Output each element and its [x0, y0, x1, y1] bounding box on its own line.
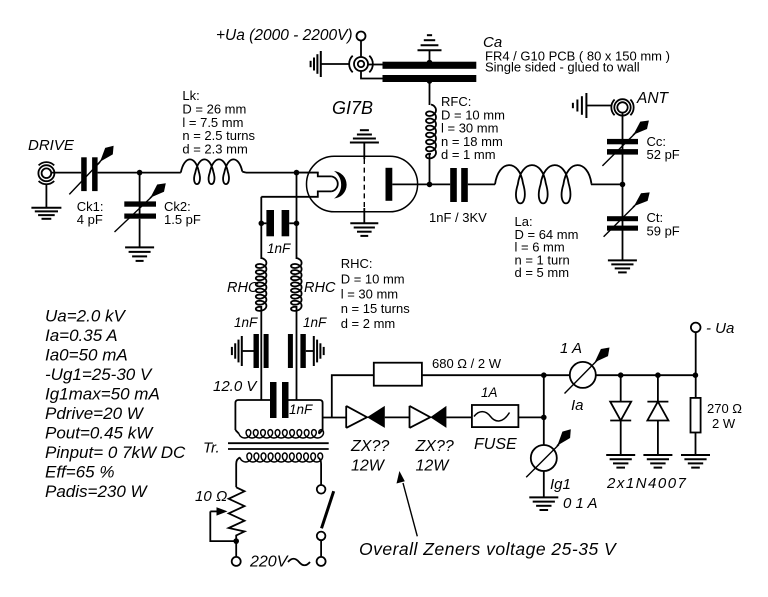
capacitor Ca bottom plate [383, 75, 477, 82]
ground (270) [681, 454, 710, 456]
junction on Ca top plate [427, 60, 433, 66]
zener D1 ZX?? [345, 406, 347, 428]
vertical between junctions [543, 375, 545, 445]
svg-text:1.5 pF: 1.5 pF [164, 212, 201, 227]
junction [233, 538, 239, 544]
svg-text:4 pF: 4 pF [77, 212, 103, 227]
svg-text:ZX??: ZX?? [350, 438, 389, 455]
wire up to 680 branch [332, 375, 374, 417]
svg-text:Padis=230 W: Padis=230 W [45, 482, 149, 501]
grid (dashed) [363, 159, 365, 208]
wire [429, 50, 431, 62]
wire [622, 113, 624, 261]
capacitor Ck1 plates [81, 157, 87, 191]
transformer primary winding [240, 453, 323, 462]
terminal 220V left [232, 557, 241, 566]
terminal +Ua [357, 32, 366, 41]
feedthrough capacitor [358, 61, 364, 67]
inductor RHC right [291, 258, 302, 311]
wire [368, 64, 384, 66]
transformer secondary winding [239, 430, 324, 438]
ground (above Ca, inverted) [418, 49, 442, 51]
resistor 10 ohm rheostat zigzag [229, 487, 245, 541]
capacitor Ck1 trimmer arrow [69, 162, 100, 194]
switch blade [322, 491, 334, 528]
anode plate [386, 168, 393, 201]
grid wire bottom [363, 208, 365, 223]
svg-text:Single sided - glued to wall: Single sided - glued to wall [485, 60, 640, 75]
ground (Ig1) [529, 496, 558, 498]
svg-text:d = 2.3 mm: d = 2.3 mm [182, 142, 247, 157]
svg-text:DRIVE: DRIVE [28, 137, 75, 154]
capacitor Cc plates [607, 139, 638, 144]
wire [139, 173, 141, 214]
wire [52, 172, 82, 174]
svg-text:D = 10 mm: D = 10 mm [341, 272, 405, 287]
inductor La [495, 165, 591, 203]
svg-text:- Ua: - Ua [706, 320, 734, 337]
capacitor Ct plates [607, 216, 638, 221]
junction [620, 182, 626, 188]
svg-text:1nF: 1nF [267, 241, 291, 256]
svg-text:Ig1: Ig1 [550, 476, 571, 493]
svg-text:ZX??: ZX?? [415, 438, 454, 455]
svg-text:d = 5 mm: d = 5 mm [515, 265, 570, 280]
svg-text:RHC: RHC [304, 280, 336, 296]
svg-text:ANT: ANT [636, 90, 670, 107]
svg-text:FUSE: FUSE [474, 436, 517, 453]
wire [139, 219, 141, 248]
svg-text:Ig1max=50 mA: Ig1max=50 mA [45, 385, 160, 404]
wire [695, 332, 697, 398]
inductor RHC left [256, 258, 267, 311]
capacitor Ck2 trimmer arrow [115, 197, 153, 233]
svg-text:Ia=0.35 A: Ia=0.35 A [45, 326, 118, 345]
wire [360, 41, 362, 57]
svg-text:+Ua (2000 - 2200V): +Ua (2000 - 2200V) [216, 27, 353, 44]
inductor RFC [426, 105, 436, 159]
wire [586, 105, 611, 107]
capacitor Ck2 plates [124, 201, 156, 206]
wire [235, 541, 237, 557]
svg-text:GI7B: GI7B [332, 98, 373, 118]
capacitor Ct trimmer arrow [604, 206, 635, 237]
cathode emitter (thick crescent) [334, 171, 347, 199]
junction [541, 415, 547, 421]
svg-text:1nF: 1nF [234, 315, 258, 330]
fuse F1 [472, 405, 519, 427]
svg-text:1nF / 3KV: 1nF / 3KV [429, 210, 487, 225]
capacitor Ca top plate [383, 62, 477, 69]
ground (below grid) [350, 222, 378, 224]
wire (right cathode line lower) [296, 306, 298, 400]
capacitor 1nF feedthrough right [288, 334, 293, 368]
grid wire top [363, 143, 365, 160]
svg-text:l = 30 mm: l = 30 mm [341, 286, 398, 301]
svg-text:RHC:: RHC: [341, 256, 373, 271]
wire [321, 63, 350, 65]
svg-text:12W: 12W [416, 458, 451, 475]
svg-text:RHC: RHC [227, 280, 259, 296]
svg-text:Pout=0.45 kW: Pout=0.45 kW [45, 424, 154, 443]
wire (left cathode line lower) [260, 306, 262, 400]
ground (Ck2) [125, 246, 154, 248]
wire [45, 184, 47, 208]
meter Ig1 [531, 445, 557, 471]
wire [596, 374, 696, 376]
capacitor 1nF (across heater) [270, 382, 277, 418]
ground (D3) [606, 454, 635, 456]
zener D2 ZX?? [409, 406, 411, 428]
junctions [618, 372, 624, 378]
wire (left cathode line upper) [260, 197, 262, 259]
svg-text:1A: 1A [481, 385, 498, 400]
resistor 680ohm box [374, 363, 422, 386]
wire from box to zeners [323, 417, 347, 419]
note arrow [403, 483, 417, 536]
wire [385, 416, 410, 418]
cathode leads [297, 173, 332, 177]
wire [246, 172, 319, 174]
AC tilde [288, 559, 310, 566]
ground (left of ANT) [585, 93, 587, 118]
svg-text:2x1N4007: 2x1N4007 [606, 475, 687, 492]
svg-text:Eff=65 %: Eff=65 % [45, 463, 114, 482]
capacitor Cc trimmer arrow [602, 134, 635, 166]
switch top contact [317, 485, 326, 494]
wire (anode) [392, 183, 450, 185]
transformer Tr box [235, 400, 270, 430]
junction [294, 170, 300, 176]
svg-text:220V: 220V [249, 554, 289, 571]
wire [468, 183, 495, 185]
wire [446, 416, 472, 418]
svg-text:d = 2 mm: d = 2 mm [341, 316, 396, 331]
wire (right cathode line upper) [296, 173, 298, 259]
junction on Ca bottom plate [427, 78, 433, 84]
svg-text:-Ug1=25-30 V: -Ug1=25-30 V [45, 365, 153, 384]
svg-text:n = 15 turns: n = 15 turns [341, 301, 411, 316]
meter Ia [570, 362, 596, 388]
svg-text:Pdrive=20 W: Pdrive=20 W [45, 404, 145, 423]
terminal -Ua [691, 323, 701, 333]
svg-text:270 Ω: 270 Ω [707, 401, 742, 416]
wire [98, 172, 181, 174]
svg-text:Pinput= 0 7kW DC: Pinput= 0 7kW DC [45, 443, 186, 462]
svg-text:12W: 12W [351, 458, 386, 475]
svg-text:680 Ω / 2 W: 680 Ω / 2 W [432, 356, 502, 371]
inductor Lk [181, 159, 243, 184]
svg-text:Ua=2.0 kV: Ua=2.0 kV [45, 307, 127, 326]
capacitor 1nF/3KV plates [450, 168, 457, 202]
svg-text:1nF: 1nF [289, 402, 313, 417]
wire [518, 416, 543, 418]
svg-text:0 1 A: 0 1 A [563, 495, 597, 512]
svg-text:1 A: 1 A [560, 340, 582, 357]
wire [429, 82, 431, 105]
svg-text:Overall Zeners voltage 25-35: Overall Zeners voltage 25-35 V [359, 539, 618, 559]
diode D3 (down) [620, 375, 622, 401]
transformer core [228, 442, 329, 444]
connector J1 DRIVE [42, 168, 52, 178]
svg-text:d = 1 mm: d = 1 mm [441, 147, 496, 162]
ground (D4) [643, 454, 672, 456]
capacitor 1nF feedthrough left [254, 334, 259, 368]
resistor 270 ohm [691, 398, 701, 433]
terminal 220V right [317, 557, 326, 566]
connector J2 ANT [617, 102, 627, 112]
wire [591, 183, 623, 185]
wire [320, 540, 322, 557]
tube GI7B envelope [307, 156, 418, 212]
wire [695, 433, 697, 456]
ground (above grid, inverted) [360, 129, 369, 131]
wire [543, 471, 545, 497]
svg-text:Ia0=50 mA: Ia0=50 mA [45, 346, 128, 365]
svg-text:59 pF: 59 pF [647, 224, 680, 239]
svg-text:1nF: 1nF [303, 315, 327, 330]
wire [422, 374, 570, 376]
capacitor 1nF (heater bypass top) [261, 222, 266, 224]
junction [541, 372, 547, 378]
junction (anode/RFC) [427, 182, 433, 188]
rheostat wiper arrow [210, 510, 218, 512]
ground (Ct) [608, 259, 637, 261]
svg-text:Ia: Ia [571, 397, 584, 414]
svg-text:52 pF: 52 pF [647, 147, 680, 162]
wire [429, 154, 431, 185]
cathode heater arc [331, 176, 337, 191]
switch bottom contact [317, 532, 326, 541]
svg-text:12.0 V: 12.0 V [213, 378, 258, 395]
diode D4 (up) [657, 375, 659, 401]
ground (left of feedthrough) [320, 51, 322, 77]
svg-text:10 Ω: 10 Ω [195, 488, 227, 505]
svg-text:Tr.: Tr. [203, 440, 220, 457]
ground (DRIVE) [31, 207, 61, 209]
svg-text:2 W: 2 W [712, 416, 736, 431]
junction [137, 170, 143, 176]
